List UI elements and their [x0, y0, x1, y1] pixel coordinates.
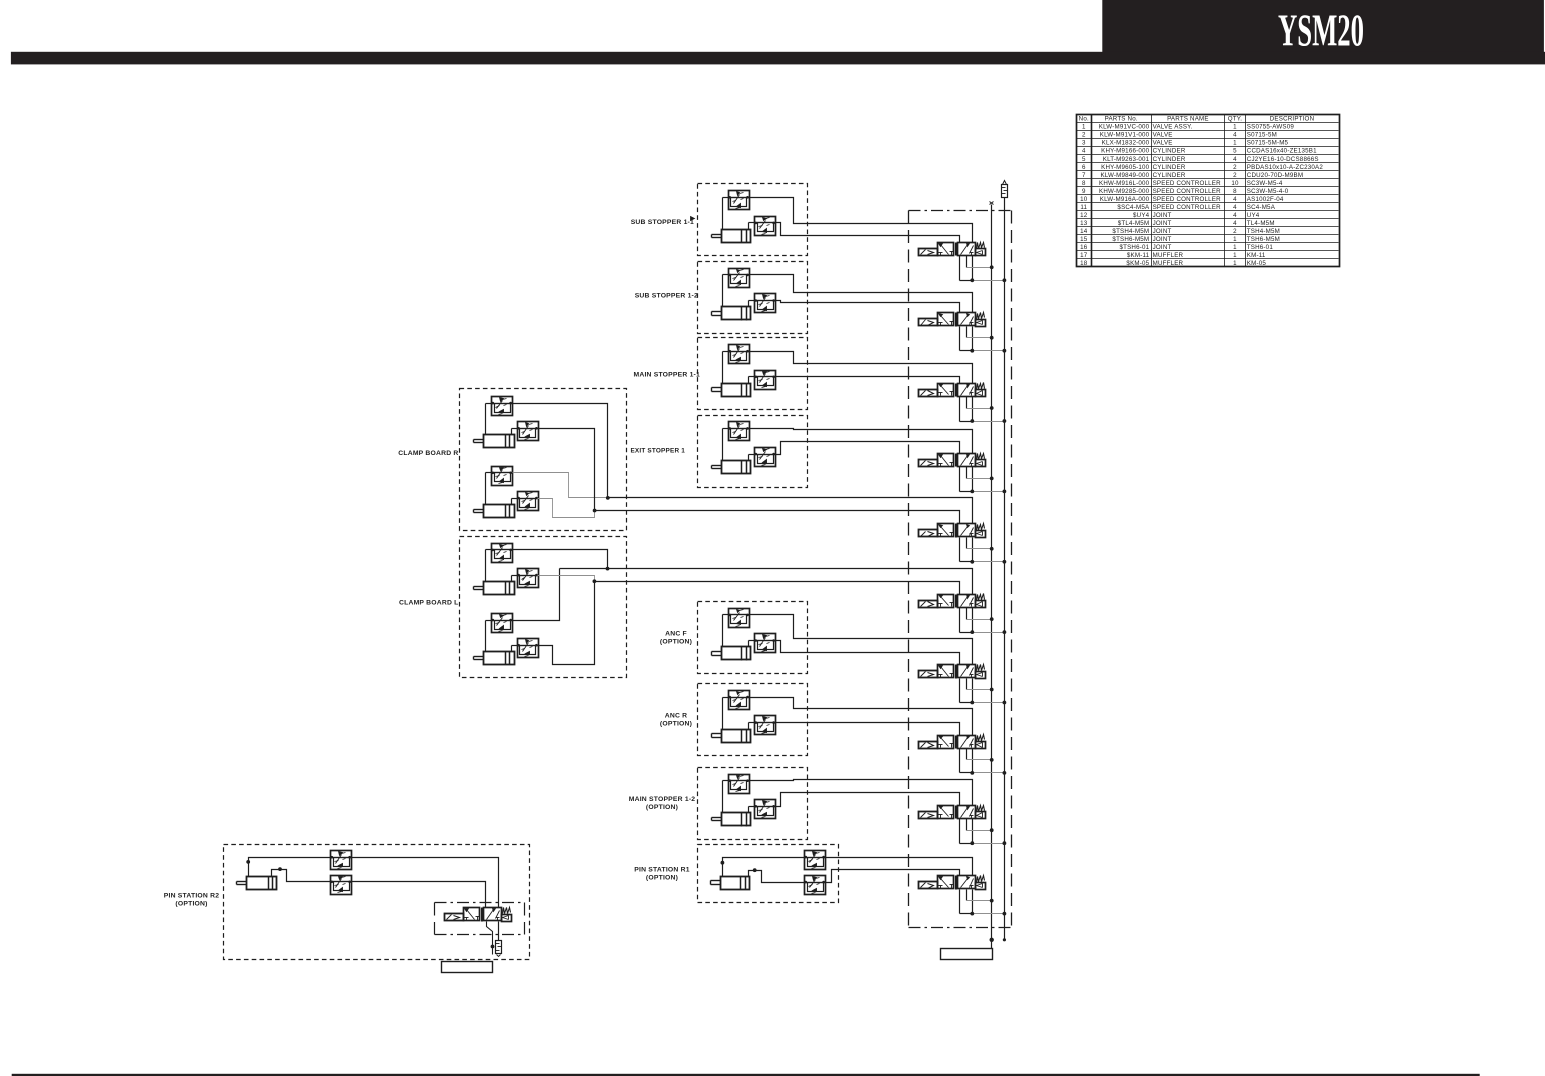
svg-text:$TSH6-01: $TSH6-01 [1119, 244, 1149, 251]
svg-text:SPEED CONTROLLER: SPEED CONTROLLER [1153, 188, 1222, 195]
svg-text:CYLINDER: CYLINDER [1153, 164, 1186, 171]
svg-text:10: 10 [1080, 196, 1088, 203]
svg-text:AS1002F-04: AS1002F-04 [1247, 196, 1284, 203]
svg-text:KLW-M91VC-000: KLW-M91VC-000 [1099, 124, 1150, 131]
svg-text:2: 2 [1082, 132, 1086, 139]
svg-text:TSH6-01: TSH6-01 [1247, 244, 1274, 251]
svg-text:MUFFLER: MUFFLER [1153, 252, 1184, 259]
svg-text:SPEED CONTROLLER: SPEED CONTROLLER [1153, 196, 1222, 203]
svg-text:4: 4 [1233, 212, 1237, 219]
svg-text:CYLINDER: CYLINDER [1153, 156, 1186, 163]
svg-text:5: 5 [1233, 148, 1237, 155]
svg-text:$SC4-M5A: $SC4-M5A [1117, 204, 1150, 211]
svg-text:13: 13 [1080, 220, 1088, 227]
svg-text:4: 4 [1233, 204, 1237, 211]
svg-text:17: 17 [1080, 252, 1088, 259]
svg-text:$UY4: $UY4 [1133, 212, 1150, 219]
svg-text:YSM20: YSM20 [1278, 6, 1364, 56]
svg-text:KLW-M9849-000: KLW-M9849-000 [1100, 172, 1149, 179]
svg-text:PARTS No.: PARTS No. [1105, 116, 1138, 123]
svg-text:4: 4 [1233, 156, 1237, 163]
svg-text:1: 1 [1233, 244, 1237, 251]
svg-text:15: 15 [1080, 236, 1088, 243]
svg-text:SPEED CONTROLLER: SPEED CONTROLLER [1153, 204, 1222, 211]
svg-text:SS0755-AWS09: SS0755-AWS09 [1247, 124, 1295, 131]
svg-text:7: 7 [1082, 172, 1086, 179]
svg-text:CCDAS16x40-ZE135B1: CCDAS16x40-ZE135B1 [1247, 148, 1317, 155]
svg-text:VALVE: VALVE [1153, 132, 1173, 139]
svg-text:5: 5 [1082, 156, 1086, 163]
svg-text:16: 16 [1080, 244, 1088, 251]
svg-text:18: 18 [1080, 260, 1088, 267]
svg-text:1: 1 [1233, 252, 1237, 259]
svg-text:SC3W-M5-4: SC3W-M5-4 [1247, 180, 1283, 187]
svg-text:4: 4 [1082, 148, 1086, 155]
svg-text:$KM-05: $KM-05 [1126, 260, 1149, 267]
svg-text:CDU20-70D-M9BM: CDU20-70D-M9BM [1247, 172, 1303, 179]
svg-text:SC4-M5A: SC4-M5A [1247, 204, 1276, 211]
svg-text:JOINT: JOINT [1153, 228, 1172, 235]
svg-text:SUB STOPPER 1-1: SUB STOPPER 1-1 [631, 219, 694, 226]
svg-text:$KM-11: $KM-11 [1127, 252, 1150, 259]
svg-text:KM-11: KM-11 [1247, 252, 1266, 259]
svg-text:2: 2 [1233, 164, 1237, 171]
svg-text:11: 11 [1080, 204, 1087, 211]
svg-text:MAIN STOPPER 1-2: MAIN STOPPER 1-2 [629, 796, 696, 803]
svg-text:VALVE ASSY.: VALVE ASSY. [1153, 124, 1193, 131]
svg-text:DESCRIPTION: DESCRIPTION [1270, 116, 1315, 123]
svg-text:14: 14 [1080, 228, 1088, 235]
svg-text:JOINT: JOINT [1153, 244, 1172, 251]
svg-text:12: 12 [1080, 212, 1088, 219]
svg-text:MUFFLER: MUFFLER [1153, 260, 1184, 267]
svg-text:KLW-M916A-000: KLW-M916A-000 [1100, 196, 1150, 203]
svg-text:1: 1 [1233, 260, 1237, 267]
svg-text:UY4: UY4 [1247, 212, 1260, 219]
svg-text:1: 1 [1233, 140, 1237, 147]
svg-text:9: 9 [1082, 188, 1086, 195]
svg-text:VALVE: VALVE [1153, 140, 1173, 147]
svg-text:(OPTION): (OPTION) [660, 639, 692, 646]
svg-text:CJ2YE16-10-DCS8866S: CJ2YE16-10-DCS8866S [1247, 156, 1319, 163]
svg-text:4: 4 [1233, 132, 1237, 139]
svg-text:SC3W-M5-4-0: SC3W-M5-4-0 [1247, 188, 1289, 195]
svg-text:KLT-M9263-001: KLT-M9263-001 [1103, 156, 1150, 163]
svg-text:1: 1 [1233, 124, 1237, 131]
svg-text:QTY.: QTY. [1228, 116, 1243, 123]
svg-text:3: 3 [1082, 140, 1086, 147]
svg-text:(OPTION): (OPTION) [646, 804, 678, 811]
svg-text:CYLINDER: CYLINDER [1153, 148, 1186, 155]
svg-text:2: 2 [1233, 172, 1237, 179]
svg-text:$TSH6-M5M: $TSH6-M5M [1112, 236, 1149, 243]
svg-text:TSH4-M5M: TSH4-M5M [1247, 228, 1280, 235]
svg-text:$TSH4-M5M: $TSH4-M5M [1112, 228, 1149, 235]
svg-text:(OPTION): (OPTION) [660, 721, 692, 728]
svg-text:JOINT: JOINT [1153, 236, 1172, 243]
svg-text:KHW-M916L-000: KHW-M916L-000 [1099, 180, 1150, 187]
svg-text:KHW-M9285-000: KHW-M9285-000 [1099, 188, 1150, 195]
svg-text:PARTS NAME: PARTS NAME [1167, 116, 1209, 123]
svg-text:EXIT STOPPER 1: EXIT STOPPER 1 [630, 448, 685, 455]
svg-text:8: 8 [1233, 188, 1237, 195]
svg-text:PBDAS10x10-A-ZC230A2: PBDAS10x10-A-ZC230A2 [1247, 164, 1324, 171]
svg-text:S0715-5M-M5: S0715-5M-M5 [1247, 140, 1289, 147]
svg-text:KLW-M91V1-000: KLW-M91V1-000 [1100, 132, 1150, 139]
svg-text:(OPTION): (OPTION) [646, 875, 678, 882]
svg-text:MAIN STOPPER 1-1: MAIN STOPPER 1-1 [633, 372, 700, 379]
svg-text:JOINT: JOINT [1153, 212, 1172, 219]
svg-text:KHY-M9166-000: KHY-M9166-000 [1101, 148, 1149, 155]
svg-text:No.: No. [1079, 116, 1089, 123]
svg-text:SPEED CONTROLLER: SPEED CONTROLLER [1153, 180, 1222, 187]
svg-text:4: 4 [1233, 196, 1237, 203]
svg-text:CYLINDER: CYLINDER [1153, 172, 1186, 179]
svg-text:CLAMP BOARD L: CLAMP BOARD L [399, 600, 459, 607]
svg-text:10: 10 [1231, 180, 1239, 187]
svg-text:ANC F: ANC F [665, 631, 687, 638]
svg-text:TSH6-M5M: TSH6-M5M [1247, 236, 1280, 243]
svg-text:(OPTION): (OPTION) [175, 901, 207, 908]
svg-text:KHY-M9605-100: KHY-M9605-100 [1101, 164, 1149, 171]
svg-text:KLX-M1832-000: KLX-M1832-000 [1102, 140, 1150, 147]
svg-text:$TL4-M5M: $TL4-M5M [1118, 220, 1150, 227]
svg-text:4: 4 [1233, 220, 1237, 227]
svg-text:CLAMP BOARD R: CLAMP BOARD R [398, 450, 458, 457]
svg-text:1: 1 [1233, 236, 1237, 243]
svg-text:TL4-M5M: TL4-M5M [1247, 220, 1275, 227]
svg-text:2: 2 [1233, 228, 1237, 235]
svg-text:KM-05: KM-05 [1247, 260, 1267, 267]
svg-text:6: 6 [1082, 164, 1086, 171]
svg-text:8: 8 [1082, 180, 1086, 187]
svg-text:1: 1 [1082, 124, 1086, 131]
svg-text:SUB STOPPER 1-2: SUB STOPPER 1-2 [635, 293, 698, 300]
svg-text:JOINT: JOINT [1153, 220, 1172, 227]
svg-text:PIN STATION R1: PIN STATION R1 [634, 867, 689, 874]
svg-text:PIN STATION R2: PIN STATION R2 [164, 893, 219, 900]
svg-text:S0715-5M: S0715-5M [1247, 132, 1277, 139]
svg-text:ANC R: ANC R [665, 713, 688, 720]
